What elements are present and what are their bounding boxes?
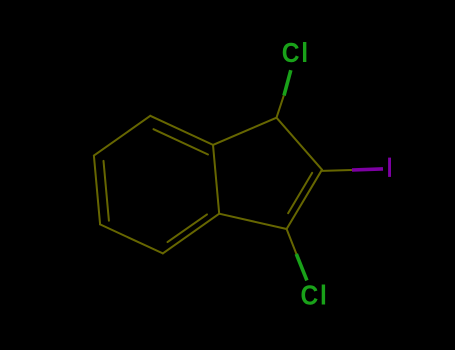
bond C3a-C8a fusion [213,145,219,214]
bond C4-C3a [163,214,219,254]
bond C8a-C7 [150,116,213,145]
atom I right [388,158,391,177]
bond C3-Cl carbon half [287,229,297,255]
bond C2-C3 [287,170,322,229]
bond C3-Cl green half [296,254,307,281]
bond C1-Cl carbon half [277,96,284,118]
inner double C4=C3a [168,214,208,242]
skeleton [94,116,322,254]
bond C2-I purple half [352,169,383,170]
bond C8a-C1 [213,118,277,145]
inner double C7=C8a [154,129,209,154]
bond C2-I carbon half [322,169,352,172]
bond C3-C3a [219,214,286,229]
inner double C2=C3 [288,173,312,213]
bond C5-C4 [100,224,163,253]
svg-text:Cl: Cl [301,279,329,311]
bond C6-C5 [94,156,100,225]
inner double C5=C6 [104,161,109,221]
bond C7-C6 [94,116,150,156]
bond C1-C2 [277,118,323,170]
svg-text:Cl: Cl [282,37,310,69]
bond C1-Cl green half [284,70,291,95]
